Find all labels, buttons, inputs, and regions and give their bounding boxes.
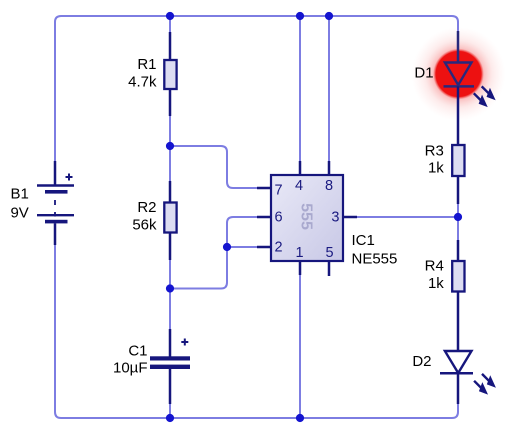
wire left rail bottom + bottom rail to D2: [55, 245, 458, 418]
wire branch to pin 2: [227, 246, 258, 248]
svg-text:D2: D2: [412, 353, 431, 370]
resistor R3: [452, 145, 464, 204]
wire node A to R2 top: [169, 146, 171, 181]
wire top rail to pin 8: [328, 16, 330, 161]
resistor R1: [164, 32, 176, 116]
wire top rail to pin 4: [299, 16, 301, 161]
node top R1: [166, 12, 174, 20]
svg-text:1: 1: [295, 245, 303, 261]
node pin2 branch: [223, 243, 231, 251]
svg-text:7: 7: [275, 183, 283, 199]
svg-text:56k: 56k: [132, 216, 157, 233]
svg-text:R2: R2: [137, 199, 156, 216]
node B: [166, 284, 174, 292]
label R1 4.7k: [128, 56, 157, 91]
wire node A to pin 7: [170, 146, 258, 188]
svg-text:NE555: NE555: [352, 250, 398, 267]
wire node B to pin 6: [170, 217, 258, 289]
svg-text:C1: C1: [128, 343, 147, 360]
wire R3 to R4 through node C: [457, 204, 459, 240]
resistor R2: [164, 181, 176, 260]
label C1 10uF: [113, 343, 148, 377]
svg-text:4.7k: 4.7k: [128, 74, 157, 91]
label R2 56k: [132, 199, 157, 234]
svg-text:9V: 9V: [10, 205, 28, 222]
node C pin3: [454, 213, 462, 221]
capacitor C1: [150, 329, 190, 404]
svg-text:3: 3: [331, 210, 339, 226]
wire R1 bottom to node A: [169, 116, 171, 146]
svg-text:1k: 1k: [428, 275, 444, 292]
svg-text:1k: 1k: [428, 160, 444, 177]
svg-text:8: 8: [325, 178, 333, 194]
battery B1: [37, 161, 74, 245]
node A: [166, 142, 174, 150]
svg-text:R1: R1: [137, 56, 156, 73]
wire left rail + top rail to D1: [55, 16, 458, 161]
wire R2 bottom to node B: [169, 260, 171, 289]
svg-text:D1: D1: [414, 65, 433, 82]
wire pin 3 to node C: [357, 216, 458, 218]
LED D2: [440, 320, 495, 405]
svg-text:10µF: 10µF: [113, 360, 148, 377]
resistor R4: [452, 240, 464, 320]
svg-text:555: 555: [298, 203, 315, 230]
label R3 1k: [425, 143, 445, 177]
node C1 bottom: [166, 414, 174, 422]
svg-text:6: 6: [275, 210, 283, 226]
node top pin4: [296, 12, 304, 20]
LED D1 glow: [412, 27, 506, 121]
wire node B to C1: [169, 289, 171, 330]
wire pin 1 to bottom rail: [299, 275, 301, 418]
label R4 1k: [425, 258, 445, 292]
svg-text:5: 5: [325, 245, 333, 261]
node top pin8: [325, 12, 333, 20]
pin numbers: [275, 178, 340, 261]
svg-text:R4: R4: [425, 258, 444, 275]
svg-text:R3: R3: [425, 143, 444, 160]
svg-text:2: 2: [275, 240, 283, 256]
svg-text:B1: B1: [10, 185, 28, 202]
wire top rail to R1: [169, 16, 171, 32]
label B1 9V: [10, 185, 28, 221]
wire C1 to bottom rail: [169, 404, 171, 418]
node pin1 bottom: [296, 414, 304, 422]
svg-text:IC1: IC1: [352, 232, 375, 249]
LED D1: [436, 31, 494, 145]
op-amp IC1 555 body: [257, 161, 357, 276]
svg-text:4: 4: [295, 178, 303, 194]
label IC1 NE555: [352, 232, 398, 267]
